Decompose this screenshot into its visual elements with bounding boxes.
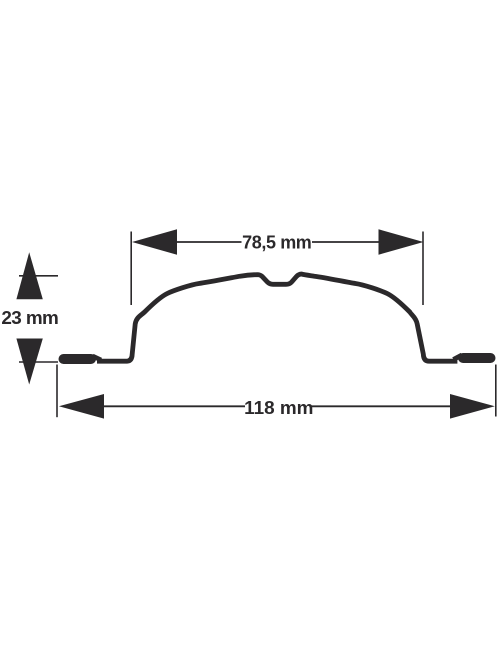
top dimension extension line left	[130, 232, 132, 306]
top dimension extension line right	[422, 232, 424, 306]
svg-text:23 mm: 23 mm	[1, 308, 58, 329]
top dimension arrow left	[132, 229, 177, 254]
left dimension tick bottom	[19, 361, 58, 363]
bottom dimension extension line left	[56, 365, 58, 418]
top dimension arrow right	[379, 229, 424, 254]
bottom dimension line right segment	[312, 405, 453, 407]
left dimension arrow down	[16, 339, 42, 385]
svg-text:118 mm: 118 mm	[244, 398, 313, 419]
right hem (folded edge bar)	[463, 353, 491, 363]
top dimension line left segment	[175, 241, 242, 243]
svg-text:78,5 mm: 78,5 mm	[242, 232, 311, 252]
left dimension tick top	[19, 275, 58, 277]
bottom dimension arrow right	[450, 394, 495, 419]
bottom dimension arrow left	[59, 394, 104, 419]
left hem taper	[93, 356, 102, 360]
top dimension line right segment	[312, 241, 380, 243]
left dimension arrow up	[16, 252, 42, 299]
left hem (folded edge bar)	[64, 354, 92, 364]
profile outline (hat cross-section centerline)	[97, 274, 457, 361]
bottom dimension extension line right	[495, 365, 497, 417]
right hem taper	[453, 355, 462, 360]
bottom dimension line left segment	[102, 405, 245, 407]
